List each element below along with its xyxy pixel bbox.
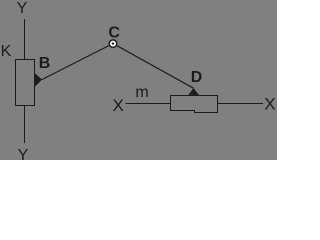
svg-text:D: D: [191, 69, 203, 86]
svg-text:Y: Y: [18, 147, 29, 160]
svg-text:C: C: [108, 25, 120, 42]
svg-text:m: m: [135, 84, 148, 101]
svg-text:X: X: [264, 95, 275, 114]
svg-text:K: K: [1, 43, 12, 60]
svg-text:B: B: [39, 55, 51, 72]
svg-text:X: X: [113, 96, 124, 115]
svg-text:Y: Y: [17, 0, 28, 17]
